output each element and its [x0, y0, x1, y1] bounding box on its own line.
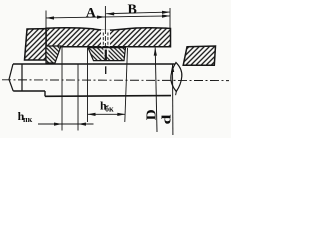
hole bottom [103, 45, 109, 47]
svg-text:D: D [144, 109, 159, 120]
left ring trapezoid [46, 46, 61, 63]
svg-text:пк: пк [23, 115, 33, 124]
hole dashed sides [102, 33, 104, 47]
shaft step at x=45 [44, 91, 46, 96]
d arrow up [171, 64, 174, 72]
extension line x=46 [45, 11, 47, 61]
arrow at 105 right [97, 16, 105, 19]
svg-text:B: B [128, 3, 137, 18]
extension line x=170 top [169, 8, 171, 28]
ext line x=87.5 [87, 48, 89, 122]
lens tail [175, 92, 178, 96]
hole in hub (white slot) [101, 30, 110, 47]
notch in middle ring [103, 48, 108, 55]
h_pk arrow right-pointing tip 62 [54, 123, 62, 126]
hole center tick [105, 50, 107, 61]
dimension line B [106, 12, 170, 14]
dim line h_pk [38, 123, 94, 125]
ext line x=126 [125, 48, 128, 122]
centerline [2, 79, 229, 82]
middle ring trapezoid [88, 48, 126, 61]
arrow at 170 right (total) [162, 15, 170, 18]
arrow B left [106, 12, 114, 15]
h_pk arrow left-pointing tip 78 [78, 123, 86, 126]
right block (hatched) [183, 46, 215, 65]
left break pentagon [9, 64, 22, 92]
h_bk arrow right tip 125.3 [117, 113, 125, 116]
ext line x=62 [61, 47, 63, 131]
hub block (hatched, wavy top) [46, 28, 171, 47]
h_bk arrow left tip 87.5 [88, 113, 96, 116]
dim line h_bk [88, 113, 126, 115]
arrow at 46 left [46, 16, 54, 19]
D dimension line [155, 48, 157, 132]
D arrow up [154, 48, 157, 56]
svg-text:A: A [86, 6, 97, 21]
hole axis dash below shaft top [105, 66, 107, 74]
shaft top line [13, 63, 175, 65]
shaft bottom line [45, 95, 171, 98]
shaft bottom left (big) [13, 90, 45, 92]
dimension line A total [46, 16, 170, 18]
right break lens [171, 63, 182, 92]
arrow B right [162, 11, 170, 14]
ext line x=78 [77, 64, 79, 131]
left cap block (hatched) [25, 29, 47, 60]
svg-text:d: d [160, 114, 174, 124]
hole centerline x=105 [104, 29, 106, 53]
svg-text:бк: бк [105, 105, 114, 114]
extension line x=105 (upper) [104, 6, 106, 29]
d dimension line [172, 64, 174, 135]
